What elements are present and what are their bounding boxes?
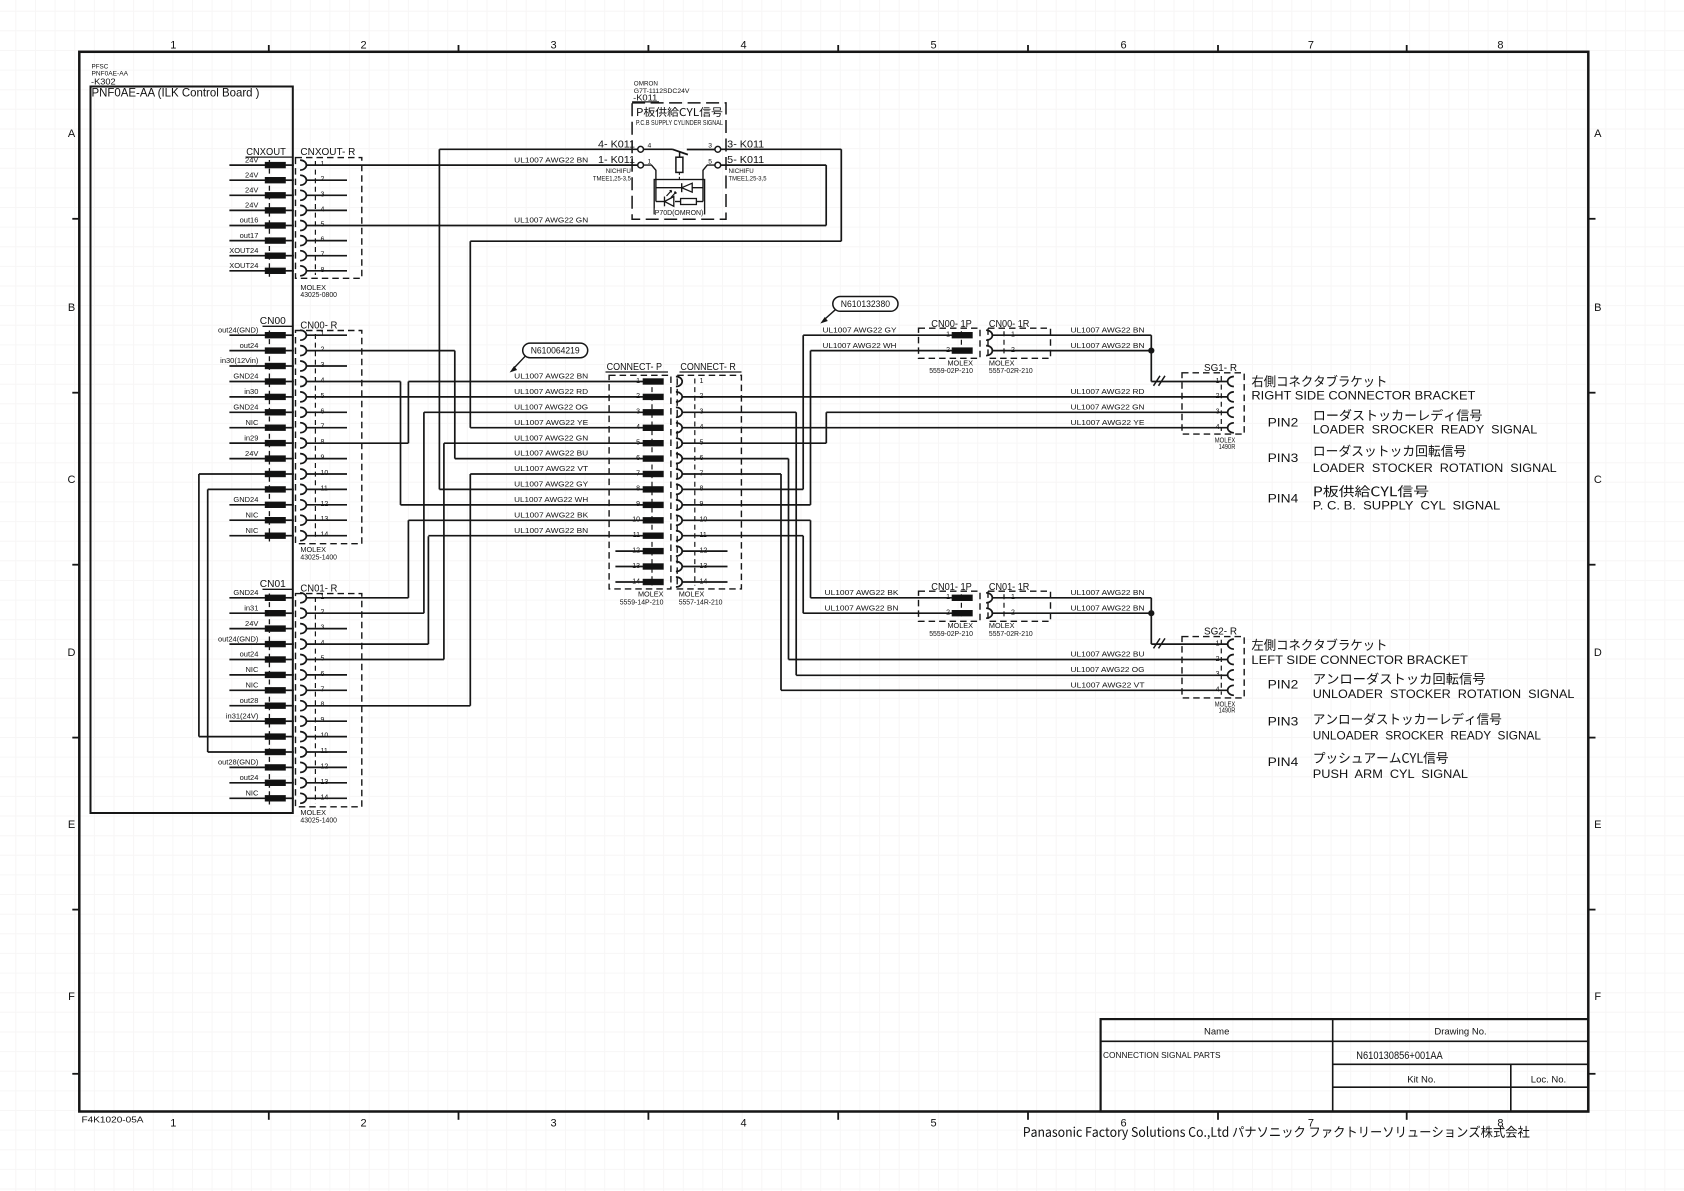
svg-text:UL1007 AWG22 BN: UL1007 AWG22 BN: [1071, 590, 1145, 597]
svg-text:UL1007 AWG22 BN: UL1007 AWG22 BN: [1071, 343, 1145, 350]
svg-text:A: A: [1594, 128, 1602, 140]
text F4K1020-05A: [82, 1114, 144, 1124]
wire BN CONNECT-R pin11 to CN01-1P pin2: [682, 536, 952, 614]
svg-text:2: 2: [360, 40, 366, 52]
svg-text:UL1007 AWG22 RD: UL1007 AWG22 RD: [514, 389, 588, 396]
svg-text:out24(GND): out24(GND): [218, 325, 259, 334]
wire BU to CONNECT-P pin6: [455, 458, 643, 460]
wire VT CN01-R pin8 to CONNECT-P pin7: [306, 474, 643, 706]
label CONNECT-P: [606, 361, 669, 373]
svg-text:UL1007 AWG22 GN: UL1007 AWG22 GN: [514, 435, 588, 442]
text unloader stocker rotation jp: [1314, 673, 1484, 685]
connector CNXOUT-R receptacle: [296, 158, 362, 279]
svg-text:4: 4: [740, 40, 746, 52]
wire CN00-R pin4 to WH row: [306, 382, 400, 505]
wire GN CNXOUT-R pin5 to relay pin5: [306, 165, 826, 225]
svg-text:3: 3: [550, 40, 556, 52]
svg-text:CN00- 1R: CN00- 1R: [989, 318, 1030, 330]
label MOLEX 5557-02R-210 (CN00): [989, 358, 1033, 375]
svg-text:24V: 24V: [245, 449, 258, 458]
svg-text:N610130856+001AA: N610130856+001AA: [1356, 1050, 1443, 1062]
svg-text:out24: out24: [240, 341, 259, 350]
text loader stocker ready jp: [1315, 409, 1482, 421]
label NICHIFU TMEE right: [729, 168, 767, 182]
label MOLEX 43025-1400: [300, 545, 337, 561]
svg-text:F4K1020-05A: F4K1020-05A: [82, 1114, 144, 1124]
svg-text:1: 1: [1011, 594, 1015, 601]
svg-text:43025-0800: 43025-0800: [300, 290, 337, 299]
svg-text:24V: 24V: [245, 186, 258, 195]
svg-text:CNXOUT: CNXOUT: [246, 146, 286, 158]
svg-text:1: 1: [946, 332, 950, 339]
svg-text:1490R: 1490R: [1219, 706, 1236, 715]
relay K011 contact blade: [644, 149, 715, 157]
label NICHIFU TMEE left: [593, 168, 631, 182]
text loader stocker rotation jp: [1315, 445, 1466, 457]
title block Loc. No.: [1531, 1075, 1566, 1086]
label SG1-R: [1204, 362, 1237, 374]
svg-text:NIC: NIC: [245, 789, 259, 798]
svg-text:5: 5: [930, 40, 936, 52]
svg-text:P. C. B. SUPPLY CYL SIGNAL: P. C. B. SUPPLY CYL SIGNAL: [1313, 500, 1501, 513]
svg-text:UL1007 AWG22 VT: UL1007 AWG22 VT: [1071, 683, 1146, 690]
title block Kit No.: [1407, 1075, 1436, 1086]
text PIN4 (SG2): [1268, 755, 1299, 769]
connector CN01-1P plug: [919, 591, 981, 621]
wire 4-K011 to GY vertical: [439, 149, 637, 489]
wire BN to CONNECT-P pin1: [408, 381, 643, 383]
svg-text:GND24: GND24: [233, 372, 258, 381]
svg-text:2: 2: [1216, 393, 1220, 400]
svg-text:2: 2: [1011, 347, 1015, 354]
connector SG2-R receptacle: [1182, 637, 1244, 698]
svg-text:5559-14P-210: 5559-14P-210: [620, 597, 664, 606]
svg-text:1: 1: [1216, 378, 1220, 385]
svg-text:GND24: GND24: [233, 588, 258, 597]
footer Panasonic Factory Solutions: [1024, 1126, 1529, 1140]
label MOLEX 5557-02R-210 (CN01): [989, 621, 1033, 638]
wire label UL1007 AWG22 BN (relay): [514, 157, 588, 164]
svg-text:1: 1: [170, 1118, 176, 1130]
svg-text:PIN2: PIN2: [1268, 678, 1299, 692]
svg-text:2: 2: [360, 1118, 366, 1130]
label SG2-R: [1204, 626, 1237, 638]
svg-text:F: F: [68, 991, 75, 1003]
label CN00-1P: [931, 318, 972, 330]
svg-text:out24(GND): out24(GND): [218, 634, 259, 643]
svg-text:CN00- 1P: CN00- 1P: [931, 318, 972, 330]
wire labels UL1007 right side: [1071, 327, 1146, 689]
relay K011 pin circles 4 3 1 5: [638, 143, 721, 169]
svg-text:1: 1: [1216, 640, 1220, 647]
svg-text:Drawing No.: Drawing No.: [1434, 1027, 1486, 1038]
svg-text:SG1- R: SG1- R: [1204, 362, 1237, 374]
svg-text:CN01- 1R: CN01- 1R: [989, 581, 1030, 593]
wire WH to CONNECT-P pin9: [401, 504, 644, 506]
svg-text:in31: in31: [244, 603, 258, 612]
svg-text:5: 5: [708, 158, 712, 165]
text push arm cyl jp: [1314, 752, 1447, 764]
svg-text:B: B: [68, 302, 75, 314]
board outline PNF0AE-AA ILK Control Board: [91, 87, 293, 814]
svg-text:24V: 24V: [245, 201, 258, 210]
text PUSH ARM CYL SIGNAL: [1313, 768, 1469, 781]
svg-text:out28(GND): out28(GND): [218, 758, 259, 767]
svg-text:UL1007 AWG22 BN: UL1007 AWG22 BN: [514, 374, 588, 381]
svg-text:1: 1: [170, 40, 176, 52]
svg-text:NIC: NIC: [245, 665, 259, 674]
svg-text:UL1007 AWG22 GY: UL1007 AWG22 GY: [823, 327, 897, 334]
svg-text:24V: 24V: [245, 619, 258, 628]
svg-text:CONNECTION SIGNAL PARTS: CONNECTION SIGNAL PARTS: [1103, 1050, 1221, 1060]
svg-text:out16: out16: [240, 216, 259, 225]
svg-text:8: 8: [1497, 40, 1503, 52]
svg-text:5: 5: [930, 1118, 936, 1130]
junction dot CN01-1R: [1148, 610, 1154, 616]
text PIN3 (SG2): [1268, 715, 1299, 729]
wire BN CN01-1R to SG2-R pin1: [992, 598, 1227, 644]
svg-text:UL1007 AWG22 VT: UL1007 AWG22 VT: [514, 466, 589, 473]
label MOLEX 43025-0800: [300, 283, 337, 299]
svg-text:CN01- 1P: CN01- 1P: [931, 581, 972, 593]
svg-text:5559-02P-210: 5559-02P-210: [929, 629, 973, 638]
svg-text:UL1007 AWG22 GY: UL1007 AWG22 GY: [514, 482, 588, 489]
svg-text:LOADER SROCKER READY SIGNAL: LOADER SROCKER READY SIGNAL: [1313, 423, 1538, 436]
svg-text:LOADER STOCKER ROTATION SIG: LOADER STOCKER ROTATION SIGNAL: [1313, 462, 1557, 475]
junction dot CN00-1R: [1148, 348, 1154, 354]
wire CN00 pin10 to CN01 pin10: [199, 474, 265, 737]
svg-text:UL1007 AWG22 BK: UL1007 AWG22 BK: [514, 512, 588, 519]
svg-text:GND24: GND24: [233, 495, 258, 504]
label CN00: [260, 315, 293, 327]
svg-text:NIC: NIC: [245, 418, 259, 427]
wire RD CONNECT-R pin2 to SG1-R pin2: [682, 396, 1228, 398]
svg-text:F: F: [1594, 991, 1601, 1003]
wire BK CN01-R pin1 to CONNECT-P pin10: [306, 520, 643, 598]
svg-text:TMEE1,25-3,5: TMEE1,25-3,5: [729, 176, 767, 183]
svg-text:UNLOADER STOCKER ROTATION S: UNLOADER STOCKER ROTATION SIGNAL: [1313, 688, 1575, 701]
label CN00-R: [300, 320, 337, 332]
svg-text:2: 2: [1011, 610, 1015, 617]
svg-text:Kit No.: Kit No.: [1407, 1075, 1436, 1086]
svg-text:3: 3: [708, 143, 712, 150]
svg-text:in30: in30: [244, 387, 258, 396]
wire GN CN01-R pin5 to CONNECT-P pin5: [306, 443, 643, 659]
svg-text:NICHIFU: NICHIFU: [729, 168, 754, 175]
svg-text:1: 1: [648, 158, 652, 165]
svg-text:Loc. No.: Loc. No.: [1531, 1075, 1566, 1086]
svg-text:Name: Name: [1204, 1027, 1229, 1038]
svg-text:NIC: NIC: [245, 526, 259, 535]
svg-text:UL1007 AWG22 OG: UL1007 AWG22 OG: [1071, 667, 1145, 674]
label 5-K011: [727, 154, 764, 166]
svg-text:CN01: CN01: [260, 578, 286, 590]
svg-text:NIC: NIC: [245, 681, 259, 690]
text P C B SUPPLY CYL SIGNAL: [1313, 500, 1501, 513]
svg-text:NICHIFU: NICHIFU: [606, 168, 631, 175]
svg-text:3: 3: [1216, 671, 1220, 678]
svg-text:GND24: GND24: [233, 403, 258, 412]
title block Drawing No.: [1434, 1027, 1486, 1038]
text PIN3 (SG1): [1268, 451, 1299, 465]
text unloader stocker ready jp: [1314, 713, 1501, 725]
svg-text:CN00: CN00: [260, 315, 286, 327]
svg-text:A: A: [68, 128, 76, 140]
svg-text:XOUT24: XOUT24: [229, 261, 258, 270]
svg-text:UL1007 AWG22 BN: UL1007 AWG22 BN: [1071, 605, 1145, 612]
text PIN2 (SG1): [1268, 416, 1299, 430]
svg-text:2: 2: [946, 610, 950, 617]
svg-text:1: 1: [700, 378, 704, 385]
svg-text:in31(24V): in31(24V): [226, 711, 259, 720]
wire labels UL1007 AWG22 at CONNECT-P: [514, 374, 589, 535]
text UNLOADER SROCKER READY SIGNAL: [1313, 729, 1542, 742]
label MOLEX 5557-14R-210: [679, 589, 723, 606]
connector CN00-1P plug: [919, 328, 981, 358]
svg-text:C: C: [68, 474, 76, 486]
svg-text:2: 2: [1216, 656, 1220, 663]
svg-text:E: E: [68, 819, 75, 831]
svg-text:UL1007 AWG22 WH: UL1007 AWG22 WH: [823, 343, 897, 350]
svg-text:XOUT24: XOUT24: [229, 246, 258, 255]
label MOLEX 5559-14P-210: [620, 589, 664, 606]
wire CN00-R pin8 to BN row: [306, 382, 408, 444]
label MOLEX 43025-1400 (CN01): [300, 808, 337, 824]
label CN00-1R: [989, 318, 1030, 330]
svg-text:UL1007 AWG22 GN: UL1007 AWG22 GN: [1071, 405, 1145, 412]
wire VT CONNECT-R pin7 to SG2-R pin4: [682, 474, 1228, 690]
title block CONNECTION SIGNAL PARTS: [1103, 1050, 1221, 1060]
svg-text:UL1007 AWG22 OG: UL1007 AWG22 OG: [514, 404, 588, 411]
svg-text:CN01- R: CN01- R: [300, 583, 337, 595]
label CN01-1R: [989, 581, 1030, 593]
relay K011 P70D surge suppressor module: [644, 165, 715, 214]
label CN01-R: [300, 583, 337, 595]
svg-text:UL1007 AWG22 BU: UL1007 AWG22 BU: [1071, 652, 1145, 659]
svg-text:5557-14R-210: 5557-14R-210: [679, 597, 723, 606]
board title text: [92, 86, 260, 100]
text RIGHT SIDE CONNECTOR BRACKET: [1251, 389, 1476, 403]
svg-text:PIN4: PIN4: [1268, 492, 1299, 506]
wire labels UL1007 at CN00-1P CN01-1P: [823, 327, 899, 612]
svg-text:UL1007 AWG22 YE: UL1007 AWG22 YE: [514, 420, 588, 427]
wire break mark SG1: [1154, 376, 1166, 386]
svg-text:N610064219: N610064219: [531, 346, 580, 357]
svg-text:UL1007 AWG22 BN: UL1007 AWG22 BN: [514, 157, 588, 164]
svg-text:OMRON: OMRON: [634, 81, 659, 88]
connector SG1-R receptacle: [1182, 373, 1244, 434]
label P70D OMRON: [655, 208, 704, 217]
svg-text:UL1007 AWG22 RD: UL1007 AWG22 RD: [1071, 389, 1145, 396]
connector CN00-R receptacle: [296, 330, 362, 544]
svg-text:UNLOADER SROCKER READY SIGN: UNLOADER SROCKER READY SIGNAL: [1313, 729, 1542, 742]
svg-text:E: E: [1594, 819, 1601, 831]
wire GY CONNECT-R pin8 to CN00-1P pin1: [682, 335, 952, 489]
wire label UL1007 AWG22 GN (relay): [514, 218, 588, 225]
svg-text:3: 3: [1216, 409, 1220, 416]
label CN01: [260, 578, 293, 590]
svg-text:out24: out24: [240, 650, 259, 659]
svg-text:UL1007 AWG22 GN: UL1007 AWG22 GN: [514, 218, 588, 225]
svg-text:C: C: [1594, 474, 1602, 486]
svg-text:-K302: -K302: [91, 76, 116, 86]
wire BK CONNECT-R pin10 to CN01-1P pin1: [682, 520, 952, 598]
label 1-K011: [598, 154, 635, 166]
text LOADER STOCKER ROTATION SIGNAL: [1313, 462, 1557, 475]
label MOLEX 1490R (SG1): [1215, 436, 1236, 451]
relay K011 outline: [632, 103, 726, 219]
svg-text:D: D: [68, 647, 76, 659]
text PIN2 (SG2): [1268, 678, 1299, 692]
svg-text:in30(12Vin): in30(12Vin): [220, 356, 259, 365]
label CN01-1P: [931, 581, 972, 593]
label 4-K011: [598, 138, 635, 150]
text right side connector bracket jp: [1252, 375, 1386, 387]
svg-text:7: 7: [1308, 40, 1314, 52]
svg-text:5557-02R-210: 5557-02R-210: [989, 629, 1033, 638]
connector CONNECT-R receptacle: [676, 375, 742, 589]
svg-text:UL1007 AWG22 BN: UL1007 AWG22 BN: [1071, 327, 1145, 334]
svg-text:6: 6: [1120, 40, 1126, 52]
balloon N610064219: [510, 343, 588, 372]
wire BN CN00-1R to SG1-R pin1: [992, 335, 1227, 381]
text left side connector bracket jp: [1252, 638, 1386, 650]
svg-text:P.C.B SUPPLY CYLINDER SIGNAL: P.C.B SUPPLY CYLINDER SIGNAL: [636, 120, 723, 127]
svg-text:UL1007 AWG22 BN: UL1007 AWG22 BN: [825, 605, 899, 612]
svg-text:CN00- R: CN00- R: [300, 320, 337, 332]
wire WH CONNECT-R pin9 to CN00-1P pin2: [682, 351, 952, 505]
title block grid: [1101, 1019, 1589, 1111]
connector CN00 plug pins with crimp terminals: [218, 325, 294, 541]
svg-text:CNXOUT- R: CNXOUT- R: [300, 146, 355, 158]
text LOADER SROCKER READY SIGNAL: [1313, 423, 1538, 436]
svg-text:PIN2: PIN2: [1268, 416, 1299, 430]
wire 3-K011 loop to YE vertical: [470, 149, 841, 427]
svg-text:4: 4: [1216, 687, 1220, 694]
title block Name: [1204, 1027, 1229, 1038]
wire CN00-R pin2 to BU row: [306, 351, 455, 459]
svg-text:D: D: [1594, 647, 1602, 659]
svg-text:out24: out24: [240, 773, 259, 782]
text PIN4 (SG1): [1268, 492, 1299, 506]
svg-text:PIN3: PIN3: [1268, 715, 1299, 729]
wire CN00 pin11 to CN01 pin11: [208, 489, 266, 752]
text UNLOADER STOCKER ROTATION SIGNAL: [1313, 688, 1575, 701]
svg-text:SG2- R: SG2- R: [1204, 626, 1237, 638]
svg-text:6: 6: [1120, 1118, 1126, 1130]
svg-text:5557-02R-210: 5557-02R-210: [989, 366, 1033, 375]
balloon N610132380: [820, 297, 898, 324]
wire YE to CONNECT-P pin4: [470, 427, 643, 429]
svg-text:N610132380: N610132380: [841, 299, 890, 310]
svg-text:5559-02P-210: 5559-02P-210: [929, 366, 973, 375]
svg-text:4: 4: [1216, 424, 1220, 431]
wire break mark SG2: [1154, 638, 1166, 648]
connector CN01-R receptacle: [296, 593, 362, 807]
svg-text:out17: out17: [240, 231, 259, 240]
wire BU CONNECT-R pin6 to SG2-R pin2: [682, 459, 1228, 660]
label MOLEX 1490R (SG2): [1215, 699, 1236, 714]
connector CONNECT-P plug: [609, 375, 671, 589]
svg-text:2: 2: [946, 347, 950, 354]
text pcb supply cyl jp: [1314, 485, 1428, 497]
svg-text:in29: in29: [244, 433, 258, 442]
svg-text:CONNECT- P: CONNECT- P: [607, 361, 662, 373]
svg-text:3: 3: [550, 1118, 556, 1130]
label MOLEX 5559-02P-210 (CN00): [929, 358, 973, 375]
connector CN01 plug pins with crimp terminals: [218, 588, 294, 805]
svg-text:UL1007 AWG22 WH: UL1007 AWG22 WH: [514, 497, 588, 504]
svg-text:UL1007 AWG22 BN: UL1007 AWG22 BN: [514, 528, 588, 535]
svg-text:TMEE1,25-3,5: TMEE1,25-3,5: [593, 176, 631, 183]
relay K011 coil: [676, 157, 683, 179]
svg-text:B: B: [1594, 302, 1601, 314]
svg-text:43025-1400: 43025-1400: [300, 552, 337, 561]
svg-text:UL1007 AWG22 YE: UL1007 AWG22 YE: [1071, 420, 1145, 427]
label 3-K011: [727, 138, 764, 150]
svg-text:PFSC: PFSC: [92, 63, 109, 70]
svg-text:PIN3: PIN3: [1268, 451, 1299, 465]
svg-text:NIC: NIC: [245, 510, 259, 519]
svg-text:1: 1: [946, 594, 950, 601]
svg-text:1: 1: [1011, 332, 1015, 339]
label CNXOUT-R: [300, 146, 355, 158]
wire GY to CONNECT-P pin8: [439, 488, 643, 490]
label CONNECT-R: [680, 361, 742, 373]
svg-text:CONNECT- R: CONNECT- R: [680, 361, 736, 373]
connector CN00-1R receptacle: [986, 328, 1050, 358]
label CNXOUT: [246, 146, 293, 158]
relay K011 title text: [636, 107, 723, 127]
svg-text:4: 4: [740, 1118, 746, 1130]
wire GN CONNECT-R pin5 to SG1-R pin3: [682, 412, 1228, 443]
svg-text:UL1007 AWG22 BK: UL1007 AWG22 BK: [825, 590, 899, 597]
svg-text:43025-1400: 43025-1400: [300, 815, 337, 824]
svg-text:out28: out28: [240, 696, 259, 705]
wire BN CN01-R pin4 to CONNECT-P pin11: [306, 536, 643, 644]
svg-text:PNF0AE-AA (ILK Control Board ): PNF0AE-AA (ILK Control Board ): [92, 86, 260, 100]
svg-text:-K011: -K011: [633, 92, 657, 102]
svg-text:P70D(OMRON): P70D(OMRON): [655, 208, 704, 217]
wire OG CONNECT-R pin3 to SG2-R pin3: [682, 412, 1228, 675]
board ref PFSC PNF0AE-AA -K302: [91, 63, 129, 86]
svg-text:PIN4: PIN4: [1268, 755, 1299, 769]
text LEFT SIDE CONNECTOR BRACKET: [1251, 653, 1468, 667]
connector CNXOUT plug pins with crimp terminals: [229, 155, 294, 277]
svg-text:UL1007 AWG22 BU: UL1007 AWG22 BU: [514, 451, 588, 458]
relay K011 part labels OMRON G7T-1112SDC24V -K011: [632, 81, 690, 103]
svg-text:PUSH ARM CYL SIGNAL: PUSH ARM CYL SIGNAL: [1313, 768, 1469, 781]
svg-text:RIGHT SIDE CONNECTOR BRACKET: RIGHT SIDE CONNECTOR BRACKET: [1251, 389, 1476, 403]
wire YE CONNECT-R pin4 to SG1-R pin4: [682, 427, 1228, 429]
svg-text:1490R: 1490R: [1219, 442, 1236, 451]
connector CN01-1R receptacle: [986, 591, 1050, 621]
title block N610130856+001AA: [1356, 1050, 1443, 1062]
svg-text:LEFT SIDE CONNECTOR BRACKET: LEFT SIDE CONNECTOR BRACKET: [1251, 653, 1468, 667]
wire BN CNXOUT-R pin1 to relay pin1: [306, 164, 637, 166]
svg-text:24V: 24V: [245, 170, 258, 179]
label MOLEX 5559-02P-210 (CN01): [929, 621, 973, 638]
wire RD CN00-R pin5 to CONNECT-P pin2: [306, 396, 643, 398]
wire OG CN01-R pin2 to CONNECT-P pin3: [306, 412, 643, 613]
